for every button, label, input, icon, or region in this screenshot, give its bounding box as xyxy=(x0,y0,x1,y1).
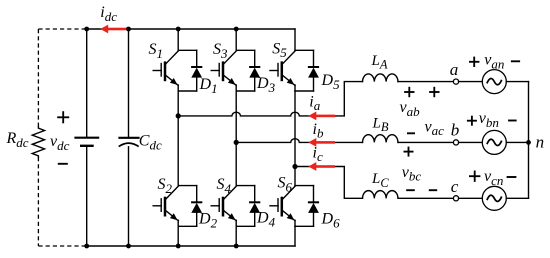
ac source vbn xyxy=(482,130,506,154)
wire cell emitter drop xyxy=(235,220,237,226)
current arrow ib xyxy=(308,138,335,147)
diode D5 xyxy=(308,50,319,91)
label minus vbn xyxy=(508,120,516,122)
wire cell bottom branch xyxy=(178,225,197,227)
junction dot xyxy=(84,27,89,32)
inductor LC xyxy=(363,191,398,199)
wire leg top xyxy=(294,167,296,186)
wire leg bottom xyxy=(177,91,179,116)
ac source van xyxy=(482,70,506,94)
wire cell top branch xyxy=(295,49,314,51)
junction dot xyxy=(234,140,239,145)
resistor Rdc xyxy=(32,127,44,157)
transistor S4 xyxy=(211,186,236,220)
node c xyxy=(453,196,458,201)
label plus van xyxy=(469,57,479,67)
diode D3 xyxy=(249,50,260,91)
junction dot xyxy=(176,244,181,249)
wire node a to source xyxy=(459,81,483,83)
wire leg bottom xyxy=(294,91,296,167)
inductor LB xyxy=(363,135,398,143)
junction dot xyxy=(234,27,239,32)
wire cell top branch xyxy=(178,49,197,51)
wire leg top xyxy=(235,142,237,185)
wire cell emitter drop xyxy=(235,85,237,91)
wire leg top xyxy=(294,29,296,50)
diode D2 xyxy=(191,186,202,227)
junction dot xyxy=(176,27,181,32)
wire LA to node a xyxy=(398,81,453,83)
wire dashed top-left segment xyxy=(38,28,86,30)
transistor S2 xyxy=(153,186,178,220)
wire cell top branch xyxy=(236,185,255,187)
label minus vcn xyxy=(507,176,517,178)
label minus vbc col2 xyxy=(429,189,437,191)
wire cell top branch xyxy=(236,49,255,51)
node n xyxy=(526,140,531,145)
label minus van xyxy=(511,60,520,62)
node a xyxy=(453,79,458,84)
wire leg bottom xyxy=(177,226,179,246)
transistor S1 xyxy=(153,51,178,85)
wire cell top branch xyxy=(178,185,197,187)
svg-text:n: n xyxy=(536,133,545,152)
wire leg bottom xyxy=(294,226,296,246)
wire leg top xyxy=(177,29,179,50)
junction dot xyxy=(234,244,239,249)
battery Vdc xyxy=(74,29,99,246)
wire node b to source xyxy=(459,141,483,143)
wire cell top branch xyxy=(295,185,314,187)
label minus vbc col1 xyxy=(406,189,415,191)
wire leg top xyxy=(177,116,179,186)
wire right neutral rail xyxy=(528,82,530,199)
wire source van to rail xyxy=(506,81,528,83)
label plus vac col2 xyxy=(429,87,439,97)
wire cell emitter drop xyxy=(294,85,296,91)
diode D6 xyxy=(308,186,319,227)
wire cell bottom branch xyxy=(236,225,255,227)
wire cell emitter drop xyxy=(177,85,179,91)
label plus vbc xyxy=(404,147,414,157)
node b xyxy=(453,140,458,145)
wire phase c line xyxy=(295,167,363,199)
wire cell bottom branch xyxy=(236,90,255,92)
label minus vdc xyxy=(58,163,68,165)
wire cell bottom branch xyxy=(295,225,314,227)
diode D4 xyxy=(249,186,260,227)
transistor S5 xyxy=(270,51,295,85)
label plus vab col1 xyxy=(404,87,414,97)
inductor LA xyxy=(363,74,398,82)
wire dashed left vertical upper xyxy=(37,29,39,127)
wire bottom dc rail xyxy=(87,245,295,247)
current arrow ia xyxy=(308,112,335,121)
wire phase a line xyxy=(178,82,362,116)
wire dashed bottom-left segment xyxy=(38,245,86,247)
svg-text:c: c xyxy=(451,177,459,196)
label plus vdc xyxy=(57,111,69,123)
label plus vcn xyxy=(469,171,480,182)
current arrow ic xyxy=(308,162,335,171)
transistor S3 xyxy=(211,51,236,85)
wire top dc rail xyxy=(87,28,295,30)
wire LC to node c xyxy=(398,197,453,199)
svg-text:a: a xyxy=(450,60,459,79)
wire phase b line xyxy=(236,139,362,143)
wire node c to source xyxy=(459,197,483,199)
ac source vcn xyxy=(482,186,506,210)
wire source vbn to rail xyxy=(506,141,528,143)
junction dot xyxy=(292,164,297,169)
wire leg bottom xyxy=(235,91,237,142)
junction dot xyxy=(84,244,89,249)
svg-text:b: b xyxy=(451,121,460,140)
wire cell bottom branch xyxy=(178,90,197,92)
label minus vab xyxy=(407,132,415,134)
diode D1 xyxy=(191,50,202,91)
wire leg bottom xyxy=(235,226,237,246)
wire leg top xyxy=(235,29,237,50)
transistor S6 xyxy=(270,186,295,220)
wire source vcn to rail xyxy=(506,197,528,199)
wire cell emitter drop xyxy=(294,220,296,226)
junction dot xyxy=(176,113,181,118)
current arrow idc xyxy=(100,25,127,34)
wire LB to node b xyxy=(398,141,453,143)
capacitor Cdc xyxy=(118,29,139,246)
wire cell bottom branch xyxy=(295,90,314,92)
wire cell emitter drop xyxy=(177,220,179,226)
label plus vbn xyxy=(467,116,477,126)
junction dot xyxy=(126,244,131,249)
junction dot xyxy=(126,27,131,32)
wire dashed left vertical lower xyxy=(37,157,39,246)
